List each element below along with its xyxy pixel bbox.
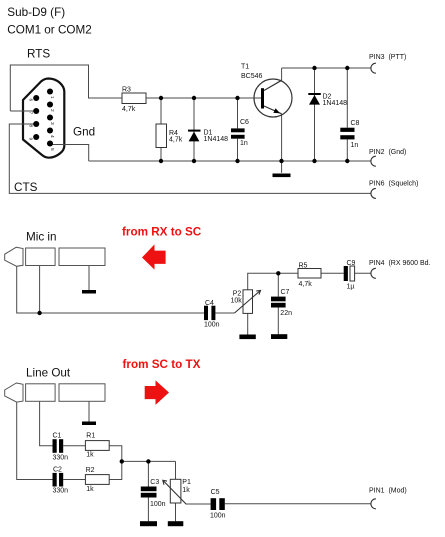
svg-text:P1: P1 <box>182 479 191 486</box>
svg-text:Mic in: Mic in <box>26 231 57 244</box>
svg-text:4,7k: 4,7k <box>169 137 183 144</box>
svg-text:4: 4 <box>49 135 55 138</box>
svg-text:PIN1 (Mod): PIN1 (Mod) <box>369 488 407 495</box>
svg-text:R1: R1 <box>86 432 95 439</box>
svg-text:from RX to SC: from RX to SC <box>122 226 202 239</box>
svg-text:C3: C3 <box>150 479 159 486</box>
svg-text:R2: R2 <box>86 467 95 474</box>
svg-text:1N4148: 1N4148 <box>204 136 229 143</box>
svg-text:1k: 1k <box>86 452 94 459</box>
svg-text:5: 5 <box>49 148 55 151</box>
svg-text:R5: R5 <box>299 263 308 270</box>
svg-text:RTS: RTS <box>27 48 50 61</box>
svg-text:C5: C5 <box>211 489 220 496</box>
svg-text:from SC to TX: from SC to TX <box>123 358 201 371</box>
svg-text:1n: 1n <box>351 142 359 149</box>
svg-text:1k: 1k <box>86 486 94 493</box>
svg-text:1k: 1k <box>182 487 190 494</box>
svg-text:T1: T1 <box>241 63 249 70</box>
svg-text:C2: C2 <box>53 467 62 474</box>
svg-text:330n: 330n <box>53 454 69 461</box>
svg-text:1: 1 <box>49 96 55 99</box>
svg-text:3: 3 <box>49 122 55 125</box>
svg-text:Line Out: Line Out <box>26 367 71 380</box>
svg-text:330n: 330n <box>53 488 69 495</box>
svg-text:CTS: CTS <box>14 181 38 194</box>
svg-text:100n: 100n <box>210 513 226 520</box>
svg-text:1µ: 1µ <box>347 284 355 291</box>
svg-text:C8: C8 <box>351 120 360 127</box>
svg-text:COM1 or COM2: COM1 or COM2 <box>7 24 91 37</box>
svg-text:100n: 100n <box>204 322 220 329</box>
svg-text:1N4148: 1N4148 <box>323 100 348 107</box>
svg-text:C6: C6 <box>240 119 249 126</box>
svg-text:PIN2 (Gnd): PIN2 (Gnd) <box>369 149 406 156</box>
svg-text:2: 2 <box>49 109 55 112</box>
svg-text:PIN3 (PTT): PIN3 (PTT) <box>369 54 406 61</box>
svg-text:C7: C7 <box>281 289 290 296</box>
svg-text:PIN4 (RX 9600 Bd.: PIN4 (RX 9600 Bd. <box>369 260 431 267</box>
svg-text:10k: 10k <box>231 298 243 305</box>
svg-text:C9: C9 <box>347 260 356 267</box>
svg-text:P2: P2 <box>233 290 242 297</box>
svg-text:100n: 100n <box>150 501 166 508</box>
svg-text:R3: R3 <box>122 86 131 93</box>
svg-text:Gnd: Gnd <box>73 125 95 138</box>
svg-text:4,7k: 4,7k <box>122 106 136 113</box>
svg-text:C1: C1 <box>53 432 62 439</box>
svg-text:1n: 1n <box>240 140 248 147</box>
svg-text:4,7k: 4,7k <box>299 281 313 288</box>
svg-text:PIN6 (Squelch): PIN6 (Squelch) <box>369 181 418 188</box>
svg-text:22n: 22n <box>280 310 292 317</box>
svg-text:Sub-D9 (F): Sub-D9 (F) <box>7 6 65 19</box>
svg-text:C4: C4 <box>205 300 214 307</box>
svg-text:BC546: BC546 <box>241 73 263 80</box>
